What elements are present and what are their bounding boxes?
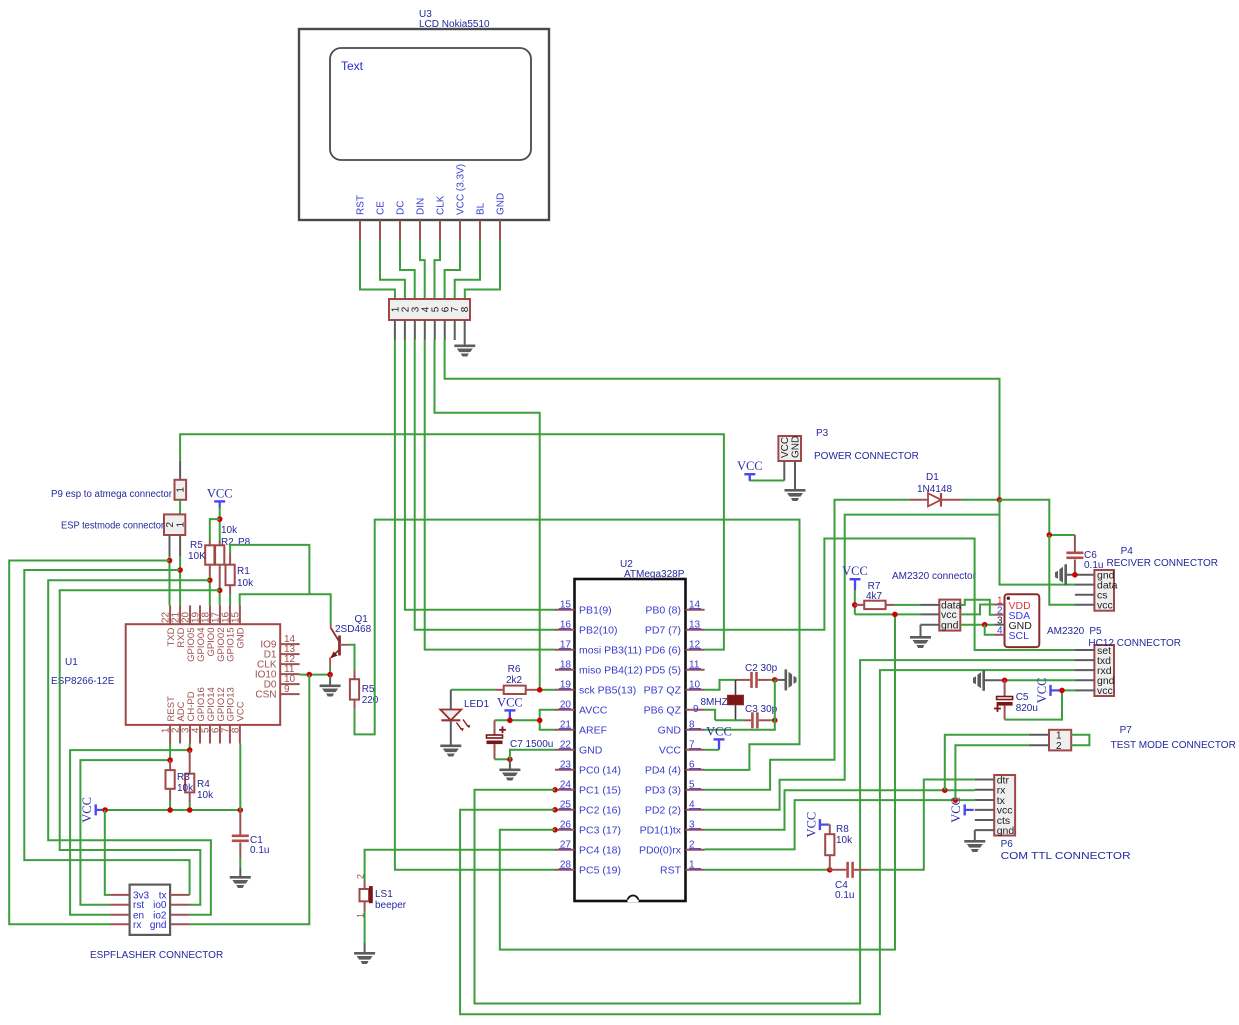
svg-text:PC3 (17): PC3 (17) [579,824,621,836]
junction R5 net [207,577,213,583]
AM2320 connector gnd stem [920,625,922,636]
P4 connector body [1094,570,1114,611]
wire VCC drop to flasher 3v3 [105,810,110,895]
capacitor C7 1500u [494,720,496,735]
wire IO10 node [300,674,331,676]
svg-text:1: 1 [175,521,186,527]
wire R5 220 to PD4 net [355,520,800,770]
wire pin15 net to Q1 collector [240,594,331,624]
wire P7 pin1 to P6 rx net [945,735,1029,790]
P9 connector pin stub [179,461,181,480]
svg-text:P5: P5 [1089,626,1102,637]
wire P8 net from R1 top [230,545,309,594]
wire U2 VCC pin7 [705,749,719,751]
junction U2 pin26 [552,827,558,833]
svg-text:VCC: VCC [236,701,247,721]
wire R3 to VCC rail [169,800,171,810]
resistor R5 10K body [209,541,211,545]
wire VCC to R2 top [219,507,221,542]
wire R1 to U1 GPIO15 pin16 [229,594,231,605]
junction VCC rail R3 [167,807,173,813]
svg-text:15: 15 [230,611,241,623]
VCC symbol left of rail [95,804,105,815]
P7 pin 2 stub [1029,744,1049,746]
P6 connector body [994,775,1015,836]
wire U2 PD7 pin13 to P5 set [705,539,1075,651]
U1 pin 13 stub [280,653,299,655]
connector pin 4 stub [424,320,426,340]
svg-text:miso PB4(12): miso PB4(12) [579,664,643,676]
svg-text:AM2320 connector: AM2320 connector [892,571,977,582]
U1 pin 11 stub [280,673,299,675]
U2 pin 23 stub [555,769,575,771]
AM2320 pin 4 stub [994,634,1004,636]
ground at LS1 [354,952,375,964]
LED1 [440,690,470,745]
wire R7 to AM2320 data [894,604,920,606]
svg-text:VCC: VCC [949,797,963,823]
wire U2 PD2 pin4 to D1 cathode net [705,515,1000,810]
svg-text:LCD Nokia5510: LCD Nokia5510 [419,19,490,30]
AM2320 pin1 indicator [1007,597,1010,600]
wire P7 pin2 to P6 tx net [955,745,1029,800]
C2 ground lead [775,679,785,681]
VCC stem to pin7 [718,739,720,749]
svg-text:0.1u: 0.1u [250,845,269,856]
testmode pin 1 stub [179,535,181,556]
resistor R1 10k body [229,553,231,565]
svg-text:CSN: CSN [255,690,276,701]
crystal 8MHZ [728,680,743,720]
U2 pin 18 stub [555,669,575,671]
junction C7 ground [507,757,513,763]
svg-text:10k: 10k [836,835,853,846]
svg-text:LS1: LS1 [375,889,393,900]
junction VCC rail C1 [238,807,244,813]
wire LCD pin GND to connector pin 8 [465,240,500,299]
svg-text:DIN: DIN [416,198,427,215]
ESPFLASHER connector body [130,885,171,935]
svg-text:R2: R2 [221,537,234,548]
svg-text:PC2 (16): PC2 (16) [579,804,621,816]
svg-text:gnd: gnd [997,825,1015,837]
svg-text:VCC: VCC [780,437,791,458]
svg-text:gnd: gnd [150,920,167,931]
svg-text:2k2: 2k2 [506,675,523,686]
P7 pin 1 stub [1029,734,1049,736]
junction P6 rx [942,787,948,793]
svg-text:1: 1 [1056,731,1062,742]
svg-text:VCC: VCC [1035,678,1049,704]
svg-text:10k: 10k [177,783,194,794]
wire vcc to VDD [960,605,994,615]
svg-text:C7 1500u: C7 1500u [510,739,553,750]
svg-text:DC: DC [396,201,407,215]
svg-text:rx: rx [133,920,141,931]
connector pin 8 stub [464,320,466,345]
junction AM2320 vcc [892,612,898,618]
wire U1 REST pin1 down [169,744,171,761]
junction C3 gnd [772,718,778,724]
svg-text:GND: GND [496,193,507,215]
U2 pin 28 stub [555,869,575,871]
U2 pin 12 stub [686,649,705,651]
VCC symbol above R2 [214,500,225,508]
wire P9 to U2 PD6 pin12 [180,434,724,649]
junction R2 net [217,588,223,594]
svg-text:GND: GND [658,724,682,736]
resistor R5 220 body [354,671,356,680]
U2 pin 19 stub [555,689,575,691]
wire U2 PC3 pin26 to AM2320 vcc net [500,614,895,949]
wire LCD pin VCC (3.3V) to connector pin 6 [445,240,460,299]
svg-text:C2 30p: C2 30p [745,663,778,674]
wire loop D flasher io0 to GPIO02 net [60,590,220,904]
svg-text:TEST MODE CONNECTOR: TEST MODE CONNECTOR [1111,740,1236,751]
wire D1 junction to P4 data [1000,500,1075,585]
U2 pin 10 stub [686,689,705,691]
svg-text:P7: P7 [1120,725,1133,736]
svg-text:10k: 10k [221,525,238,536]
U2 pin 20 stub [555,709,575,711]
junction VCC rail R4 [187,807,193,813]
junction R6 sck [537,687,543,693]
svg-text:PC5 (19): PC5 (19) [579,864,621,876]
wire connector pin4 to U2 PB3 pin17 [425,340,555,650]
wire U2 RST pin1 to R8 C4 [705,869,830,871]
U1 pin 12 stub [280,663,299,665]
svg-text:PB2(10): PB2(10) [579,624,618,636]
svg-text:8: 8 [460,306,471,312]
svg-text:P3: P3 [816,428,829,439]
svg-text:R6: R6 [508,664,521,675]
junction REST R3 [167,757,173,763]
wire LCD pin CE to connector pin 2 [380,240,405,299]
connector pin 2 stub [404,320,406,340]
svg-text:VCC: VCC [804,812,818,838]
svg-text:CE: CE [376,201,387,215]
P6 gnd stem [974,830,976,840]
U1 pin 7 stub [229,725,231,744]
VCC symbol left of R8 [819,819,829,830]
wire sck node to U2 pin19 [540,689,555,691]
LCD 8-pin connector body [389,299,470,320]
wire VCC line to AM2320 vcc [855,613,921,615]
wire U2 PD0 pin2 to P6 tx [705,800,975,849]
svg-text:AREF: AREF [579,724,607,736]
ground left of P5 gnd [973,670,985,691]
svg-text:BL: BL [476,202,487,215]
wire loop C flasher io2 to GPIO0 net [48,580,211,915]
svg-text:PB6 QZ: PB6 QZ [644,704,682,716]
svg-text:VCC: VCC [842,564,868,578]
junction RST R8 [827,867,833,873]
svg-text:R4: R4 [197,779,210,790]
U1 pin 20 stub [189,605,191,624]
svg-text:1: 1 [176,487,187,493]
svg-text:PD7 (7): PD7 (7) [645,624,681,636]
svg-text:mosi PB3(11): mosi PB3(11) [579,644,642,656]
resistor R2 10k body [219,541,221,545]
U1 pin 4 stub [199,725,201,744]
U2 pin 3 stub [686,829,705,831]
svg-text:PB7 QZ: PB7 QZ [644,684,682,696]
svg-text:SCL: SCL [1009,630,1030,642]
ground left of P4 gnd [1055,564,1067,585]
testmode pin 2 stub [169,535,171,556]
R5 bottom lead [209,565,211,576]
svg-text:RECIVER CONNECTOR: RECIVER CONNECTOR [1107,558,1219,569]
U2 pin 5 stub [686,789,705,791]
junction U2 pin24 [552,787,558,793]
VCC symbol above AVCC rail [504,709,515,717]
svg-text:LED1: LED1 [464,699,489,710]
C7 ground stem [509,759,511,768]
junction IO10 A [307,672,313,678]
svg-text:R5: R5 [362,684,375,695]
wire R5 to U1 GPIO0 pin18 [209,576,211,605]
C1 ground stem [239,868,241,876]
U1 pin 18 stub [209,605,211,624]
ground at Q1 emitter [320,685,341,697]
connector pin 3 stub [414,320,416,340]
wire LCD pin DIN to connector pin 4 [420,240,425,299]
wire AVCC to U2 pin20 [540,710,555,721]
svg-text:10K: 10K [188,551,206,562]
svg-text:P8: P8 [238,537,251,548]
LS1 ground stem [364,943,366,952]
wire connector pin1 to U2 PC5 pin28 [395,340,555,870]
wire C2 to gnd junction [770,679,775,681]
U1 pin 21 stub [179,605,181,624]
wire U2 PB7 pin10 to crystal top [705,680,736,690]
junction testmode RXD [177,567,183,573]
wire C1 to ground [239,858,241,868]
junction D1 cathode [997,497,1003,503]
svg-text:PD5 (5): PD5 (5) [645,664,681,676]
svg-text:R1: R1 [237,566,250,577]
svg-text:ESP testmode connector: ESP testmode connector [61,521,165,532]
wire gnd to GND pin3 [960,624,994,626]
U2 pin 7 stub [686,749,705,751]
ground at P3 [785,489,806,501]
svg-text:9: 9 [284,684,290,695]
wire U1 CH-PD pin3 down [189,744,191,751]
svg-text:PB0 (8): PB0 (8) [645,604,681,616]
U1 pin 9 stub [280,693,299,695]
U2 pin 8 stub [686,729,705,731]
junction CH-PD R4 [187,747,193,753]
wire junction to C6 corner [1000,500,1075,535]
wire loop F rst to U1 REST pin1 [80,760,170,905]
svg-text:vcc: vcc [1097,600,1113,612]
U2 pin 9 stub [686,709,705,711]
U2 pin 26 stub [555,829,575,831]
U1 pin 6 stub [219,725,221,744]
wire loop A flasher rx to TXD [9,561,169,925]
VCC symbol at U2 pin7 [714,738,725,746]
U2 pin 2 stub [686,849,705,851]
junction VCC rail left [102,807,108,813]
svg-text:VCC: VCC [80,797,94,823]
svg-text:P9 esp to atmega connector: P9 esp to atmega connector [51,489,173,500]
wire C6 net to P4 vcc [1049,535,1075,605]
wire VCC stem to rail [509,710,511,720]
svg-text:8MHZ: 8MHZ [701,697,728,708]
svg-text:C3 30p: C3 30p [745,704,778,715]
svg-text:PC0 (14): PC0 (14) [579,764,621,776]
svg-text:PD0(0)rx: PD0(0)rx [639,844,682,856]
U1 pin 8 stub [239,725,241,744]
U2 pin 21 stub [555,729,575,731]
capacitor C4 0.1u [830,869,847,871]
wire P5 vcc [1060,689,1075,691]
wire LS1 to ground [364,911,366,943]
wire VCC rail [105,809,241,811]
svg-text:VCC: VCC [497,695,523,709]
svg-text:0.1u: 0.1u [835,890,854,901]
junction IO10 B [327,672,333,678]
svg-text:AM2320: AM2320 [1047,626,1085,637]
svg-text:10k: 10k [197,790,214,801]
svg-text:P4: P4 [1121,546,1134,557]
wire testmode pin2 to U1 TXD pin22 [169,556,171,605]
beeper LS1 [360,881,373,911]
wire U2 PB6 pin9 to crystal bottom [705,710,716,721]
svg-text:AVCC: AVCC [579,704,608,716]
svg-text:VCC (3.3V): VCC (3.3V) [456,164,467,215]
U2 notch [628,896,639,901]
svg-text:VCC: VCC [706,724,732,738]
AM2320 part body [1005,594,1040,647]
svg-text:8: 8 [230,727,241,733]
U2 pin 17 stub [555,649,575,651]
U1 pin 3 stub [189,725,191,744]
P9 connector body [175,480,187,500]
svg-text:9: 9 [693,704,699,715]
transistor Q1 [330,624,348,668]
connector pin 1 stub [394,320,396,340]
capacitor C6 0.1u [1074,535,1076,552]
capacitor C3 30p [744,719,752,721]
AM2320 pin 2 stub [994,614,1004,616]
wire loop B flasher tx to RXD [24,570,189,895]
svg-text:RST: RST [660,864,682,876]
U1 pin 1 stub [169,725,171,744]
wire LCD pin CLK to connector pin 5 [435,240,441,299]
svg-text:CLK: CLK [436,195,447,215]
wire crystal bottom line [715,719,743,721]
resistor R7 4k7 [855,604,864,606]
wire connector pin5 to R6 node [435,340,540,690]
svg-text:HC12 CONNECTOR: HC12 CONNECTOR [1088,638,1181,649]
svg-text:VCC: VCC [207,486,233,500]
svg-text:4k7: 4k7 [866,591,883,602]
junction C5 top [1002,678,1008,684]
wire C4 to P6 dtr [870,780,975,870]
capacitor C2 30p [736,679,751,681]
U2 pin 1 stub [686,869,705,871]
capacitor C5 820u [1004,680,1006,696]
svg-text:PD2 (2): PD2 (2) [645,804,681,816]
connector pin 5 stub [434,320,436,340]
wire connector pin6 to D1 junction [445,340,1000,500]
U1 pin 5 stub [209,725,211,744]
junction C6 gnd [1072,572,1078,578]
svg-text:C5: C5 [1016,692,1029,703]
LCD U3 screen [330,48,531,160]
ground at LED1 [440,745,461,757]
svg-text:sck PB5(13): sck PB5(13) [579,684,636,696]
junction testmode TXD [167,558,173,564]
svg-text:P6: P6 [1001,839,1014,850]
svg-text:PD3 (3): PD3 (3) [645,784,681,796]
U2 pin 11 stub [686,669,705,671]
junction VCC rail [507,718,513,724]
U2 pin 4 stub [686,809,705,811]
wire connector pin3 to U2 PB2 pin16 [415,340,555,630]
wire crystal gnd vertical [705,680,775,730]
svg-text:beeper: beeper [375,900,407,911]
svg-text:220: 220 [362,695,379,706]
svg-text:GND: GND [236,627,247,648]
R2 bottom lead [219,565,221,586]
ground at AM2320 connector [910,636,931,648]
svg-text:RST: RST [356,195,367,215]
svg-text:vcc: vcc [1097,685,1113,697]
VCC symbol at P5 vcc [1049,685,1059,696]
ground at C1 [230,876,251,888]
junction U2 pin25 [552,807,558,813]
ground at P6 [964,840,985,852]
wire U2 PC4 pin27 to LS1 [365,850,555,881]
junction C2 gnd [772,677,778,683]
U2 pin 25 stub [555,809,575,811]
svg-text:VCC: VCC [659,744,682,756]
capacitor C1 0.1u [239,810,241,835]
U2 pin 22 stub [555,749,575,751]
U1 pin 22 stub [169,605,171,624]
svg-text:U1: U1 [65,657,78,668]
connector pin 7 stub [454,320,456,340]
P4 gnd lead [1067,574,1094,576]
svg-text:ESPFLASHER CONNECTOR: ESPFLASHER CONNECTOR [90,950,223,961]
svg-text:PB1(9): PB1(9) [579,604,612,616]
wire Q1 emitter to IO10 [329,668,331,675]
diode D1 1N4148 [910,493,961,507]
ground right of C2 [785,669,797,690]
wire C5 to P5 vcc [1005,690,1062,719]
wire loop E en to U1 CH-PD pin3 [70,750,190,915]
AM2320 pin 1 stub [994,604,1004,606]
svg-text:PC4 (18): PC4 (18) [579,844,621,856]
resistor R4 10k body [189,750,191,774]
svg-text:ATMega328P: ATMega328P [624,569,685,580]
ground at C7 [499,769,520,781]
svg-text:GND: GND [791,436,802,458]
VCC symbol at P3 [744,473,755,481]
svg-text:Text: Text [341,59,364,73]
P3 VCC pin stub [783,461,785,481]
svg-text:PC1 (15): PC1 (15) [579,784,621,796]
wire gnd to SCL pin4 [985,625,994,635]
P3 GND pin stub [794,461,796,489]
wire LCD pin BL to connector pin 7 [455,240,480,299]
svg-text:R8: R8 [836,824,849,835]
svg-text:2: 2 [356,874,366,879]
wire C3 to gnd vertical [770,719,775,721]
svg-text:gnd: gnd [941,620,959,632]
